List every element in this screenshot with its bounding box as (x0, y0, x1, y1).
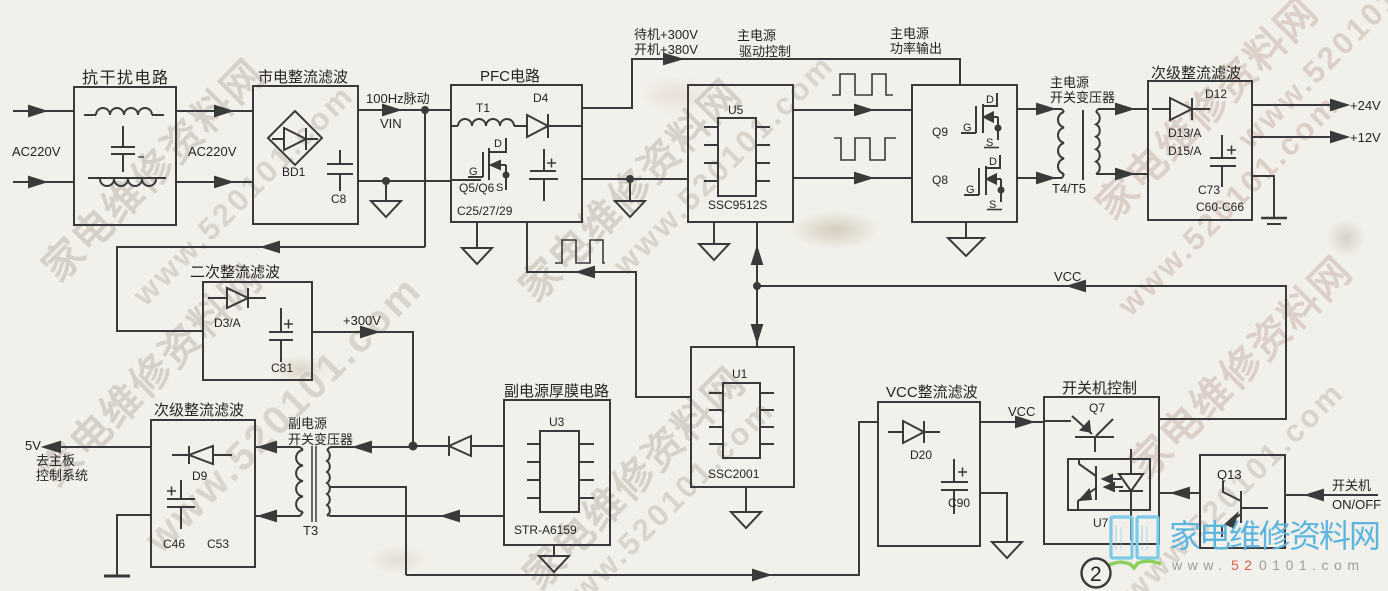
svg-text:开关机控制: 开关机控制 (1062, 380, 1137, 397)
svg-text:主电源: 主电源 (1050, 75, 1089, 90)
svg-text:家电维修资料网: 家电维修资料网 (1169, 518, 1379, 554)
svg-text:0101.com: 0101.com (1259, 557, 1364, 573)
block 市电整流滤波 (253, 86, 358, 224)
block 次级整流滤波 (5V) (151, 420, 255, 567)
svg-text:C73: C73 (1198, 183, 1220, 197)
wire U5 to U1 vertical (VCC node) (752, 222, 762, 347)
op IC U5 inner body (718, 118, 756, 196)
svg-text:U3: U3 (549, 415, 565, 429)
svg-text:Q7: Q7 (1089, 401, 1105, 415)
svg-text:2: 2 (1090, 563, 1102, 586)
block VCC整流滤波 (878, 402, 980, 546)
svg-text:C8: C8 (331, 192, 347, 206)
svg-text:T1: T1 (476, 101, 490, 115)
svg-text:D12: D12 (1205, 87, 1227, 101)
svg-text:开机+380V: 开机+380V (634, 42, 698, 57)
svg-text:52: 52 (1231, 557, 1258, 573)
capacitor C81 (269, 308, 293, 362)
wire ON/OFF input (1285, 490, 1378, 500)
mosfet Q5/Q6 (PFC switch) (451, 138, 510, 190)
svg-text:C90: C90 (948, 496, 970, 510)
wire bottom rail to VCC rectifier (406, 422, 878, 580)
optocoupler U7 LED (1119, 449, 1143, 540)
svg-text:100Hz脉动: 100Hz脉动 (366, 91, 430, 106)
ground (PFC left bottom) (462, 222, 492, 264)
svg-text:市电整流滤波: 市电整流滤波 (258, 69, 348, 86)
node VCC junction dot (753, 282, 761, 290)
wire +300V node to T3 top (330, 442, 413, 452)
page number 2 circled (1082, 559, 1111, 588)
wire VIN node down to feedback line (424, 110, 426, 247)
svg-text:S: S (989, 199, 996, 211)
wire PFC output +300/380V rail (582, 54, 960, 108)
svg-text:C25/27/29: C25/27/29 (457, 204, 513, 218)
capacitor C46/C53 (167, 480, 195, 529)
ground (below rectifier output) (371, 185, 401, 217)
svg-text:开关变压器: 开关变压器 (1050, 90, 1115, 105)
pin ticks U3 right (579, 444, 594, 498)
svg-text:G: G (966, 184, 975, 196)
block 副电源厚膜电路 U3 (504, 400, 610, 545)
svg-text:S: S (496, 182, 503, 194)
svg-text:C60-C66: C60-C66 (1196, 200, 1244, 214)
svg-text:SSC2001: SSC2001 (708, 467, 760, 481)
svg-text:Q8: Q8 (932, 173, 948, 187)
wire junction to diode to U3 (413, 445, 504, 447)
svg-text:去主板: 去主板 (36, 453, 75, 468)
ground (VCC block right) (992, 542, 1022, 558)
svg-text:二次整流滤波: 二次整流滤波 (190, 264, 280, 281)
op IC U3 inner body (540, 431, 579, 512)
wire T4 to 次级整流 bottom (1098, 169, 1148, 179)
inductor L (top, in filter block) (84, 108, 164, 115)
paper stains layer (790, 210, 880, 250)
block PFC电路 (451, 85, 582, 222)
optocoupler U7 light arrows (1103, 475, 1123, 491)
svg-text:G: G (469, 166, 478, 178)
pin ticks U1 left (709, 393, 723, 444)
svg-text:VCC: VCC (1008, 404, 1035, 419)
optocoupler U7 phototransistor (1078, 459, 1096, 510)
transformer T4/T5 primary coil (1058, 109, 1064, 178)
wire VCC out to 开关机控制 (980, 417, 1044, 427)
svg-text:主电源: 主电源 (890, 26, 929, 41)
svg-text:副电源: 副电源 (288, 416, 327, 431)
wire Q8 to T4 bottom (1017, 173, 1062, 183)
input wire AC220V bottom (left) (13, 177, 74, 187)
block U5 主电源驱动控制 (688, 85, 793, 222)
block 主电源功率输出 Q9/Q8 (912, 85, 1017, 222)
svg-text:次级整流滤波: 次级整流滤波 (1151, 65, 1241, 82)
svg-text:开关机: 开关机 (1332, 478, 1371, 493)
wire rectifier to PFC (VIN, 100Hz) (358, 105, 451, 115)
diode D9 (172, 446, 232, 464)
wire T3 primary top to D9 block (255, 442, 300, 452)
svg-text:C81: C81 (271, 361, 293, 375)
svg-text:S: S (986, 137, 993, 149)
transformer T3 right coil (327, 447, 330, 516)
square wave symbol (Q8 drive, inverted) (834, 138, 896, 160)
pin ticks U1 right (760, 393, 774, 444)
wire C90 to ground (980, 493, 1007, 542)
svg-text:STR-A6159: STR-A6159 (514, 523, 577, 537)
svg-text:控制系统: 控制系统 (36, 468, 88, 483)
mosfet Q8 (964, 155, 1005, 210)
capacitor C8 (327, 150, 353, 191)
svg-text:VCC: VCC (1054, 269, 1081, 284)
logo book icon (1111, 517, 1158, 558)
logo green underline (1109, 561, 1161, 568)
svg-text:+300V: +300V (343, 313, 381, 328)
inductor T1 (451, 119, 527, 126)
capacitor C90 (941, 459, 968, 514)
svg-text:功率输出: 功率输出 (890, 41, 942, 56)
svg-text:开关变压器: 开关变压器 (288, 432, 353, 447)
logo text www.520101.com (1171, 557, 1364, 573)
svg-text:+12V: +12V (1350, 130, 1381, 145)
svg-text:G: G (963, 122, 972, 134)
svg-text:VIN: VIN (380, 116, 402, 131)
svg-text:D9: D9 (192, 469, 208, 483)
wire to ground (次级整流 right) (1252, 176, 1274, 218)
pin ticks U5 left (704, 127, 718, 181)
svg-text:+24V: +24V (1350, 98, 1381, 113)
pin ticks U5 right (756, 127, 770, 181)
svg-text:次级整流滤波: 次级整流滤波 (154, 402, 244, 419)
transistor Q7 (1044, 416, 1114, 452)
wire D9 block to ground (117, 515, 151, 575)
op IC U1 inner body (723, 383, 760, 458)
svg-text:驱动控制: 驱动控制 (739, 44, 791, 59)
diode D12 (1152, 98, 1210, 120)
svg-text:D: D (494, 138, 502, 150)
svg-text:VCC整流滤波: VCC整流滤波 (886, 384, 978, 401)
wire T4 to 次级整流 top (1098, 104, 1148, 114)
wire U5 to Q8 gate (793, 173, 912, 183)
ground (under U3) (539, 545, 569, 572)
svg-text:C53: C53 (207, 537, 229, 551)
diode D3/A (208, 288, 266, 308)
wire U1 feedback to PFC gate (527, 222, 691, 397)
wire 5V output (44, 442, 151, 452)
svg-text:T3: T3 (303, 523, 318, 538)
svg-text:5V: 5V (25, 438, 41, 453)
capacitor C (middle, in filter block) (111, 126, 144, 172)
block 开关机控制 (1044, 397, 1159, 544)
mosfet Q9 (961, 93, 1002, 148)
input wire AC220V top (left) (13, 106, 74, 116)
ground (under U5) (699, 222, 729, 260)
svg-text:D20: D20 (910, 448, 932, 462)
svg-text:抗干扰电路: 抗干扰电路 (82, 69, 170, 87)
inductor L2 (bottom, in filter block) (88, 178, 166, 186)
svg-text:AC220V: AC220V (188, 144, 237, 159)
block Q13 (1200, 455, 1285, 548)
svg-text:D4: D4 (533, 91, 549, 105)
transformer T3 core (312, 446, 316, 522)
transformer T4/T5 core (1082, 110, 1084, 180)
wire rectifier to PFC bottom (358, 180, 451, 182)
capacitor C25/27/29 (PFC output cap) (529, 149, 558, 201)
watermark layer (27, 44, 276, 293)
diode D20 (888, 421, 940, 443)
wire filter to rectifier bottom (176, 177, 253, 187)
svg-text:www.: www. (1171, 557, 1227, 573)
svg-text:Q13: Q13 (1217, 467, 1242, 482)
wire Q13 to 开关机控制 (1159, 488, 1200, 498)
block 次级整流滤波 (top) (1148, 81, 1252, 220)
wire filter to rectifier top (176, 106, 253, 116)
ground (bar style, bottom left) (104, 575, 130, 578)
svg-text:AC220V: AC220V (12, 144, 61, 159)
wire U5 to Q9 gate (793, 105, 912, 115)
block 抗干扰电路 (74, 87, 176, 225)
svg-text:U7: U7 (1093, 516, 1109, 530)
svg-text:U5: U5 (728, 103, 744, 117)
diode D4 (527, 114, 582, 138)
wire PFC to U5 bottom rail (582, 178, 688, 180)
wire output +12V (1252, 132, 1347, 142)
wire T3 primary bottom to D9 block (255, 511, 300, 521)
wire Q9 to T4 top (1017, 104, 1062, 114)
svg-text:待机+300V: 待机+300V (634, 27, 698, 42)
capacitor C73 C60-C66 (1210, 135, 1236, 187)
svg-text:主电源: 主电源 (737, 28, 776, 43)
wire T3 mid tap to bottom rail (330, 487, 406, 575)
pin ticks U3 left (527, 444, 540, 498)
ground (次级整流 right, bar style) (1261, 218, 1287, 224)
svg-text:D: D (986, 94, 994, 106)
svg-text:C46: C46 (163, 537, 185, 551)
wire T3 bottom to U3 (feedback) (330, 511, 504, 521)
svg-text:PFC电路: PFC电路 (480, 68, 540, 85)
svg-text:U1: U1 (732, 367, 748, 381)
wire +300V output (312, 327, 413, 446)
ground (between PFC and U5) (615, 183, 645, 217)
node +300V/T3 junction dot (409, 442, 418, 451)
diode (U3 input, pointing left) (449, 436, 471, 456)
svg-text:副电源厚膜电路: 副电源厚膜电路 (504, 383, 609, 400)
transformer T3 left coil (296, 447, 303, 516)
ground (under Q9/Q8 block) (948, 222, 984, 256)
wire VCC rail to 开关机控制 (757, 281, 1286, 419)
bridge rectifier BD1 (268, 111, 322, 165)
optocoupler U7 box (1068, 459, 1150, 510)
square wave symbol (Q9 drive) (832, 74, 893, 95)
svg-text:BD1: BD1 (282, 165, 306, 179)
wire output +24V (1252, 100, 1347, 110)
svg-text:T4/T5: T4/T5 (1052, 181, 1086, 196)
node junction dot (PFC-U5 rail) (626, 175, 634, 183)
svg-text:D3/A: D3/A (214, 316, 241, 330)
svg-text:Q5/Q6: Q5/Q6 (459, 181, 495, 195)
svg-text:D15/A: D15/A (1168, 144, 1201, 158)
ground (under U1) (731, 487, 761, 528)
wire feedback to 二次整流滤波 (117, 242, 425, 331)
svg-text:SSC9512S: SSC9512S (708, 198, 767, 212)
transistor Q13 (1222, 481, 1268, 537)
svg-text:Q9: Q9 (932, 125, 948, 139)
transformer T4/T5 secondary coil (1096, 109, 1100, 174)
svg-text:D13/A: D13/A (1168, 126, 1201, 140)
node junction dot (bottom rail) (382, 177, 390, 185)
svg-text:ON/OFF: ON/OFF (1332, 497, 1381, 512)
block U1 (691, 347, 794, 487)
square wave symbol (PFC drive) (555, 240, 605, 263)
block 二次整流滤波 (203, 282, 312, 380)
node VIN junction dot (421, 106, 429, 114)
svg-text:D: D (989, 156, 997, 168)
